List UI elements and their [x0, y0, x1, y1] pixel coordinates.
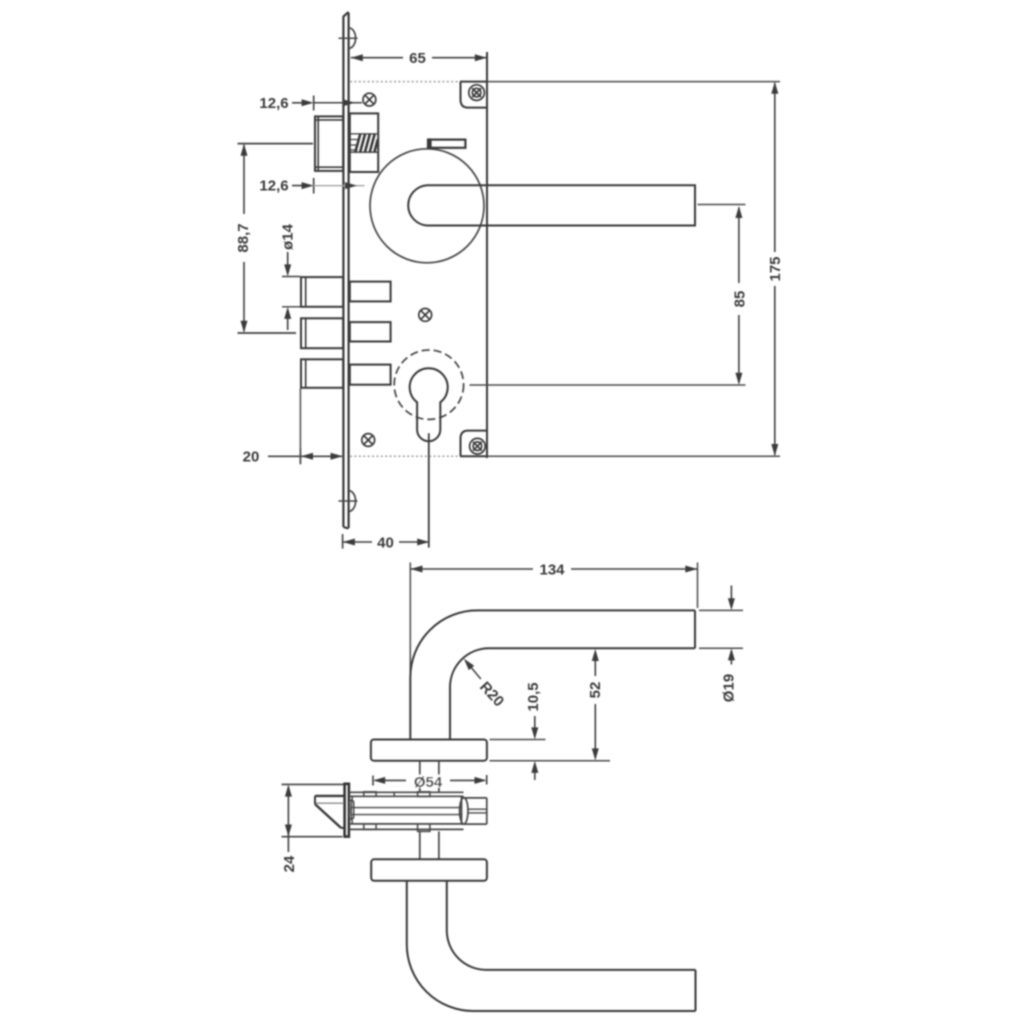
dimension o14 — [282, 276, 300, 278]
lower handle inner edge — [447, 881, 696, 970]
lock case bottom edge (dark) — [460, 455, 487, 457]
svg-text:ø14: ø14 — [280, 223, 297, 250]
latch bolt wedge (side view) — [315, 796, 345, 828]
handle profile outer edge — [410, 610, 695, 739]
svg-text:24: 24 — [281, 855, 298, 872]
svg-text:134: 134 — [539, 562, 565, 579]
faceplate bottom screw-hole bump — [349, 491, 356, 512]
svg-text:Ø54: Ø54 — [414, 774, 443, 791]
deadbolt row 2 tail — [350, 322, 391, 341]
svg-text:40: 40 — [377, 534, 394, 551]
rose side view (lower) — [371, 859, 487, 881]
svg-text:52: 52 — [587, 682, 604, 699]
lock case bottom edge (faint) — [350, 455, 461, 457]
bottom-right corner bracket — [461, 431, 488, 457]
latch spring box (right of faceplate) — [350, 113, 378, 172]
spindle hub tab — [428, 140, 465, 148]
svg-text:12,6: 12,6 — [259, 178, 288, 195]
dimension O19 — [699, 609, 743, 611]
dimension 65 — [351, 57, 487, 59]
svg-text:R20: R20 — [476, 678, 507, 710]
dimension 12,6 lower — [292, 185, 311, 187]
latch bolt head (left of faceplate) — [315, 116, 343, 170]
faceplate (side view) — [345, 784, 349, 837]
svg-text:10,5: 10,5 — [525, 682, 542, 711]
case screw lower-left — [362, 434, 375, 447]
case screw middle — [419, 309, 432, 322]
cylinder keyhole profile — [410, 368, 448, 441]
bottom-right corner screw — [470, 438, 486, 454]
faceplate top screw-hole bump — [349, 28, 356, 49]
spindle mechanism (side view) — [349, 792, 487, 832]
svg-text:175: 175 — [767, 256, 784, 281]
top-right corner screw — [469, 85, 485, 101]
handle profile inner edge — [450, 648, 695, 739]
svg-text:20: 20 — [243, 449, 260, 466]
dimension 12,6 upper — [292, 102, 311, 104]
dimension 40 — [343, 541, 372, 543]
rose circle — [370, 149, 484, 263]
deadbolt row 1 tail — [350, 282, 391, 302]
top-right corner bracket — [461, 82, 488, 108]
deadbolt row 1 head — [301, 277, 343, 307]
dimension 85 — [698, 204, 746, 206]
deadbolt row 3 tail — [350, 365, 391, 385]
R20 leader — [466, 661, 481, 679]
dimension 134 — [409, 563, 411, 677]
faceplate — [343, 12, 348, 529]
lock case top edge (dark) — [460, 81, 487, 83]
deadbolt row 2 head — [301, 318, 343, 348]
cylinder outer circle (dashed) — [394, 350, 463, 419]
svg-text:Ø19: Ø19 — [721, 674, 738, 702]
svg-text:65: 65 — [409, 50, 426, 67]
spindle links mechanism to lower rose — [419, 831, 421, 859]
cylinder centerline — [428, 433, 430, 547]
svg-text:12,6: 12,6 — [259, 95, 288, 112]
svg-text:85: 85 — [732, 291, 749, 308]
dimension 88,7 — [238, 143, 314, 145]
deadbolt row 3 head — [301, 359, 343, 388]
rose side view (upper) — [371, 740, 487, 761]
dimension 20 — [268, 455, 342, 457]
dimension 175 — [487, 81, 780, 83]
lock case right edge — [486, 52, 488, 458]
lower handle right end — [695, 970, 697, 1011]
lock case top edge (faint) — [350, 81, 461, 83]
svg-text:88,7: 88,7 — [235, 223, 252, 252]
lower handle outer edge — [407, 881, 696, 1011]
case screw upper-left — [363, 93, 376, 106]
lever handle (front view) — [408, 185, 695, 225]
dimension O54 — [409, 775, 447, 788]
spindle links rose to mechanism — [419, 761, 421, 793]
dimension 24 — [282, 783, 344, 785]
latch spring hatching — [351, 134, 378, 153]
handle profile right end — [694, 610, 696, 648]
dimension 52 — [490, 760, 611, 762]
dimension 10,5 — [490, 739, 546, 741]
